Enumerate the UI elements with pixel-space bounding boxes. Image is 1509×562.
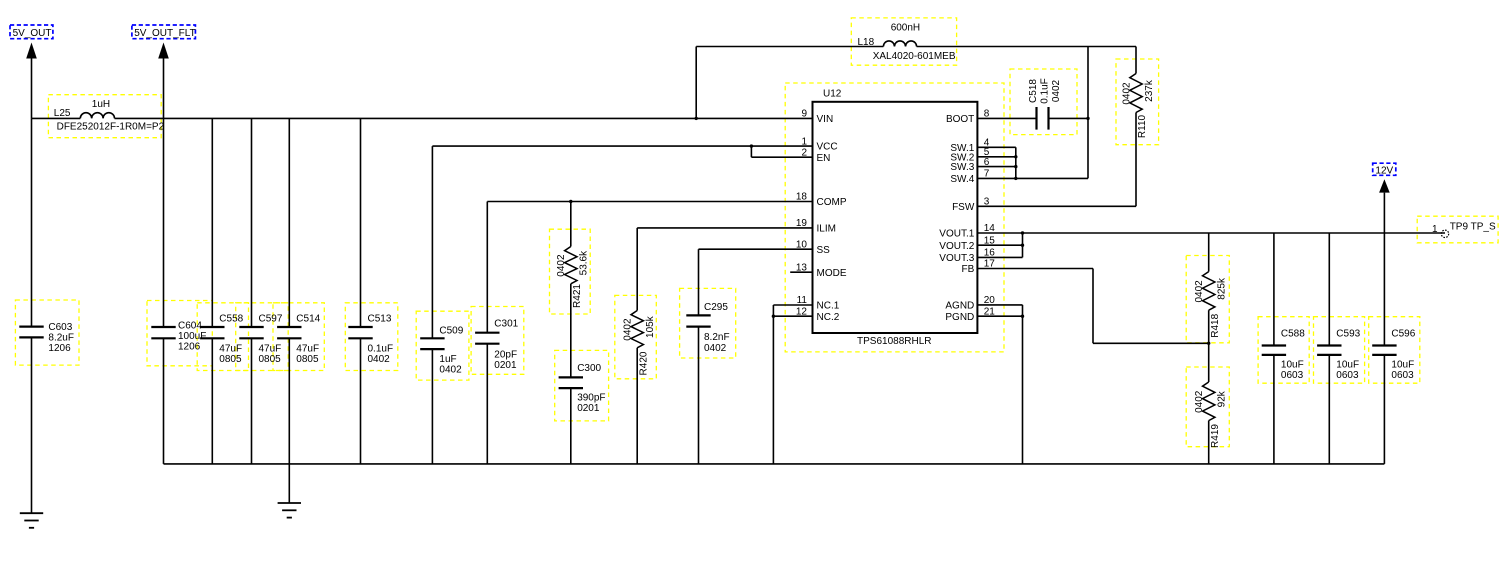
svg-text:1206: 1206 [178,342,201,353]
svg-text:0603: 0603 [1336,370,1359,381]
svg-text:10: 10 [796,239,808,250]
svg-text:13: 13 [796,262,808,273]
svg-text:8.2nF: 8.2nF [704,332,730,343]
svg-text:L25: L25 [54,108,71,119]
svg-text:0805: 0805 [219,354,242,365]
svg-text:17: 17 [984,259,996,270]
svg-text:BOOT: BOOT [946,114,974,125]
svg-text:FB: FB [962,264,975,275]
svg-text:C513: C513 [368,313,392,324]
svg-text:SW.4: SW.4 [950,174,974,185]
svg-text:0402: 0402 [1051,79,1062,102]
svg-text:TPS61088RHLR: TPS61088RHLR [857,336,931,347]
svg-text:R110: R110 [1137,114,1148,138]
svg-text:R418: R418 [1210,313,1221,337]
svg-text:C300: C300 [577,363,601,374]
svg-text:0.1uF: 0.1uF [368,344,394,355]
svg-text:U12: U12 [823,89,842,100]
svg-text:0201: 0201 [494,360,517,371]
svg-text:NC.1: NC.1 [817,301,840,312]
svg-text:100uF: 100uF [178,331,206,342]
svg-text:6: 6 [984,157,990,168]
svg-text:11: 11 [797,295,808,306]
svg-text:15: 15 [984,235,996,246]
svg-text:5V_OUT_FLT: 5V_OUT_FLT [134,28,196,39]
svg-text:9: 9 [801,109,807,120]
svg-text:FSW: FSW [952,202,975,213]
svg-text:0805: 0805 [259,354,282,365]
svg-text:0402: 0402 [556,254,567,277]
svg-text:10uF: 10uF [1281,360,1304,371]
svg-text:VOUT.2: VOUT.2 [939,241,974,252]
svg-text:R420: R420 [638,351,649,375]
svg-text:21: 21 [984,306,996,317]
svg-text:1206: 1206 [48,343,71,354]
svg-text:TP9 TP_S: TP9 TP_S [1450,222,1496,233]
svg-text:237k: 237k [1144,79,1155,102]
svg-text:47uF: 47uF [259,344,282,355]
svg-text:1: 1 [1432,224,1438,235]
svg-text:8.2uF: 8.2uF [48,332,74,343]
svg-text:C518: C518 [1028,79,1039,103]
svg-text:0402: 0402 [623,318,634,341]
svg-text:10uF: 10uF [1391,360,1414,371]
svg-text:0402: 0402 [1194,390,1205,413]
svg-text:MODE: MODE [817,268,847,279]
svg-text:C295: C295 [704,302,728,313]
svg-text:L18: L18 [858,37,875,48]
svg-text:C558: C558 [219,313,243,324]
svg-text:47uF: 47uF [219,344,242,355]
svg-text:C301: C301 [494,319,518,330]
svg-text:1uF: 1uF [439,354,456,365]
svg-text:0402: 0402 [1194,280,1205,303]
svg-text:600nH: 600nH [891,22,920,33]
svg-text:R419: R419 [1210,424,1221,448]
svg-text:C603: C603 [48,322,72,333]
svg-text:ILIM: ILIM [817,224,836,235]
svg-text:390pF: 390pF [577,393,605,404]
svg-text:2: 2 [801,147,807,158]
svg-text:C596: C596 [1391,328,1415,339]
svg-text:5V_OUT: 5V_OUT [13,28,52,39]
svg-text:XAL4020-601MEB: XAL4020-601MEB [873,51,956,62]
svg-text:18: 18 [796,192,808,203]
svg-text:7: 7 [984,169,990,180]
svg-text:53.6k: 53.6k [579,250,590,275]
svg-text:0201: 0201 [577,403,600,414]
svg-text:VOUT.1: VOUT.1 [939,229,974,240]
svg-text:0402: 0402 [704,343,727,354]
svg-text:0603: 0603 [1281,370,1304,381]
svg-text:COMP: COMP [817,197,847,208]
svg-text:0805: 0805 [296,354,319,365]
svg-text:1uH: 1uH [92,99,110,110]
svg-text:0402: 0402 [1121,82,1132,105]
svg-text:NC.2: NC.2 [817,312,840,323]
svg-text:47uF: 47uF [296,344,319,355]
svg-text:20: 20 [984,295,996,306]
svg-text:12: 12 [796,306,808,317]
svg-text:92k: 92k [1217,390,1228,407]
svg-text:EN: EN [817,153,831,164]
svg-text:3: 3 [984,197,990,208]
svg-text:VIN: VIN [817,114,834,125]
svg-text:8: 8 [984,109,990,120]
svg-text:DFE252012F-1R0M=P2: DFE252012F-1R0M=P2 [57,122,165,133]
svg-text:PGND: PGND [945,312,974,323]
svg-text:SS: SS [817,245,831,256]
svg-text:VCC: VCC [817,142,838,153]
svg-text:AGND: AGND [945,301,974,312]
svg-text:10uF: 10uF [1336,360,1359,371]
svg-text:0.1uF: 0.1uF [1040,78,1051,104]
svg-text:C604: C604 [178,321,202,332]
svg-text:C588: C588 [1281,328,1305,339]
svg-text:VOUT.3: VOUT.3 [939,253,974,264]
svg-text:C593: C593 [1336,328,1360,339]
svg-text:0603: 0603 [1391,370,1414,381]
svg-text:19: 19 [796,218,808,229]
svg-text:14: 14 [984,223,996,234]
svg-text:16: 16 [984,248,996,259]
svg-text:0402: 0402 [439,364,462,375]
svg-text:825k: 825k [1217,277,1228,300]
svg-text:1: 1 [801,136,807,147]
svg-text:C514: C514 [296,313,320,324]
svg-text:105k: 105k [645,315,656,338]
svg-text:C509: C509 [439,325,463,336]
svg-text:SW.3: SW.3 [950,162,974,173]
svg-text:0402: 0402 [368,354,391,365]
svg-text:C597: C597 [259,313,283,324]
svg-text:R421: R421 [572,284,583,308]
svg-text:12V: 12V [1375,165,1393,176]
